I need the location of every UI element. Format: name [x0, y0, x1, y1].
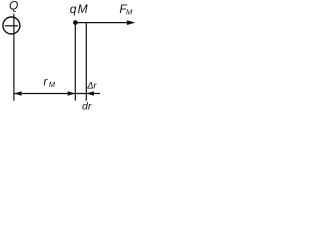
point M dot [73, 20, 78, 25]
svg-text:M: M [126, 8, 133, 17]
dimension arrow right of r_M [68, 91, 76, 95]
svg-text:q: q [70, 2, 77, 16]
svg-text:dr: dr [82, 100, 92, 112]
force arrow F_M shaft [75, 22, 128, 24]
force arrow F_M head [127, 20, 135, 25]
dimension arrow for dr pointing left [86, 91, 94, 95]
svg-text:M: M [78, 2, 88, 16]
wire: vertical line through charge down to dimension area [13, 14, 15, 101]
extension line at dr boundary [85, 23, 87, 101]
dimension line [14, 93, 100, 95]
svg-text:Q: Q [9, 0, 18, 13]
charge Q plus horizontal bar [5, 25, 19, 27]
svg-text:M: M [49, 80, 56, 89]
charge Q circle [3, 17, 20, 34]
label F_M [119, 2, 133, 17]
svg-text:Δr: Δr [86, 80, 97, 90]
label r_M [43, 75, 55, 89]
extension line down from M [74, 23, 76, 101]
dimension arrow left of r_M [14, 91, 22, 95]
